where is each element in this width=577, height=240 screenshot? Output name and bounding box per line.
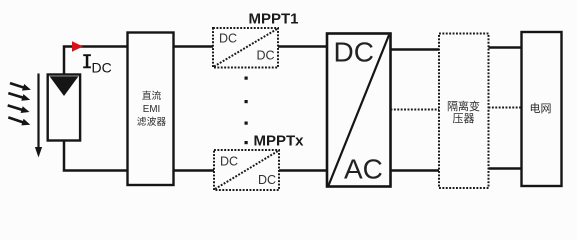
MPPT1 diagonal <box>214 29 277 67</box>
down arrow beside PV cell <box>35 74 42 158</box>
dotted control line transformer to grid <box>489 107 522 109</box>
grid box <box>522 32 562 186</box>
wire MPPT1 to inverter <box>278 45 327 48</box>
isolation transformer box <box>439 34 489 189</box>
transformer text <box>447 99 480 125</box>
red current arrow <box>72 41 83 51</box>
dotted control line inverter to transformer <box>391 109 440 111</box>
light ray arrow 3 <box>8 105 30 113</box>
inverter diagonal <box>329 35 390 186</box>
wire inverter to transformer top <box>391 48 440 50</box>
wire transformer to grid bottom <box>489 167 522 169</box>
label I_DC <box>83 54 91 68</box>
svg-text:MPPT1: MPPT1 <box>248 11 298 28</box>
EMI filter box <box>128 33 174 186</box>
svg-text:MPPTx: MPPTx <box>253 133 304 150</box>
wire EMI to MPPT1 <box>174 45 214 48</box>
PV diode triangle <box>50 76 79 96</box>
wire inverter to transformer bottom <box>391 169 440 171</box>
svg-text:电网: 电网 <box>530 102 552 115</box>
MPPTx diagonal <box>215 151 278 189</box>
svg-text:DC: DC <box>92 60 112 76</box>
svg-text:压器: 压器 <box>453 112 475 125</box>
svg-text:直流: 直流 <box>142 89 162 102</box>
ellipsis dots <box>245 77 248 145</box>
svg-text:DC: DC <box>334 37 374 68</box>
wire EMI to MPPTx <box>174 169 215 172</box>
EMI filter text <box>137 89 167 128</box>
MPPTx converter box <box>214 150 279 190</box>
svg-text:DC: DC <box>219 32 237 46</box>
svg-text:隔离变: 隔离变 <box>447 99 480 113</box>
wire PV top to EMI filter <box>64 47 128 75</box>
wire PV bottom to EMI filter <box>64 141 128 171</box>
MPPT1 converter box <box>213 28 278 68</box>
light ray arrow 2 <box>8 93 30 101</box>
svg-text:DC: DC <box>257 49 275 63</box>
PV cell body <box>48 75 80 141</box>
svg-text:DC: DC <box>258 173 276 187</box>
svg-text:AC: AC <box>344 154 383 185</box>
inverter box U1 <box>327 34 391 187</box>
light ray arrow 1 <box>10 83 31 91</box>
svg-text:EMI: EMI <box>143 104 160 115</box>
light ray arrow 4 <box>8 117 30 125</box>
wire transformer to grid top <box>489 46 522 48</box>
svg-text:DC: DC <box>220 155 238 169</box>
svg-text:滤波器: 滤波器 <box>137 115 167 128</box>
wire MPPTx to inverter <box>279 169 327 172</box>
